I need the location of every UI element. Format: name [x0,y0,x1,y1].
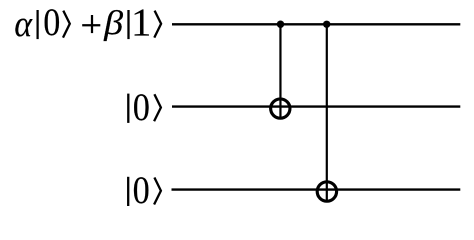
control dot of CNOT1 on q0 [277,21,285,29]
label q1: ket bar [127,94,129,123]
svg-text:α: α [14,4,32,45]
qubit wire q1 [172,105,460,107]
label q0: right angle bracket 2 [154,11,161,38]
wire: CNOT2 control-to-target vertical line [326,24,328,202]
qubit wire q0 [172,23,460,25]
label q1: right angle bracket [154,94,161,121]
label q2: ket bar [127,177,129,206]
svg-text:0: 0 [43,0,60,43]
label q0: plus sign horizontal stroke [82,24,100,26]
label q0: right angle bracket 1 [63,11,70,38]
label q0: ket bar 1 [36,10,38,39]
qubit wire q2 [172,188,461,190]
svg-text:β: β [103,4,123,42]
CNOT2 target (XOR circle) on q2 [317,182,336,201]
wire: CNOT1 control-to-target vertical line [279,24,281,119]
control dot of CNOT2 on q0 [323,21,330,28]
svg-text:1: 1 [131,1,151,44]
label q0: ket bar 2 [127,10,129,39]
label q0: plus sign vertical stroke [91,15,93,33]
CNOT1 target (XOR circle) on q1 [271,99,290,118]
svg-text:0: 0 [133,168,150,211]
label q2: right angle bracket [154,178,161,205]
svg-text:0: 0 [133,85,150,128]
